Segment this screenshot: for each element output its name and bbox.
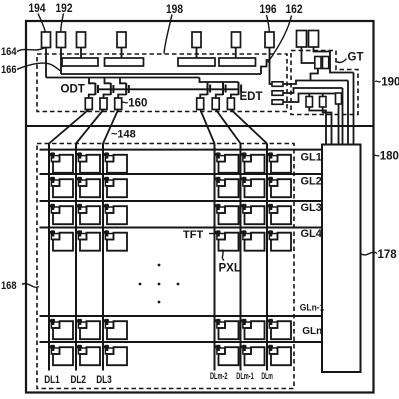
pixel cell GL3/DLm-2 xyxy=(214,204,239,224)
pad P2 xyxy=(57,32,66,48)
svg-text:TFT: TFT xyxy=(183,229,203,241)
leader 166 xyxy=(17,63,60,70)
gate driver region 178 xyxy=(322,145,361,373)
pad gt-lp3 xyxy=(336,93,342,104)
pixel cell GL3/DLm-1 xyxy=(240,204,265,224)
pad edt1 xyxy=(197,98,204,110)
transistor Q6 gate bar xyxy=(240,85,242,93)
wire P1 drop xyxy=(45,48,47,78)
wire Q2 output xyxy=(104,95,111,99)
pixel cell GL1/DLm-2 xyxy=(214,152,239,172)
leader 192 xyxy=(61,14,64,32)
svg-text:GT: GT xyxy=(348,52,364,64)
pixel cell GL4/DL3 xyxy=(103,230,128,250)
svg-text:166: 166 xyxy=(1,64,17,76)
pixel cell GL2/DLm-2 xyxy=(214,177,239,197)
pad edt2 xyxy=(212,98,219,110)
pad gt-ip1 xyxy=(315,57,321,69)
pad P4 xyxy=(117,32,126,48)
wire railB-EDT staircase xyxy=(200,78,239,83)
pixel array dashed box 168 xyxy=(37,144,294,389)
pixel cell GLn/DLm-2 xyxy=(214,345,239,365)
data line xyxy=(75,144,77,371)
wire Q4 output xyxy=(200,95,207,99)
svg-text:~160: ~160 xyxy=(122,98,148,110)
transistor Q4 channel bar xyxy=(207,82,209,95)
leader 164 xyxy=(17,48,45,52)
pixel cell GL1/DL2 xyxy=(76,152,101,172)
wire edt3-DLm xyxy=(231,110,267,144)
shorting bar B3 xyxy=(178,58,215,66)
svg-text:162: 162 xyxy=(286,4,303,16)
shorting bar B4 xyxy=(219,58,256,66)
pixel cell GL1/DLm-1 xyxy=(240,152,265,172)
svg-text:~180: ~180 xyxy=(373,151,399,163)
pixel cell GLn-1/DLm-2 xyxy=(214,319,239,339)
transistor Q5 channel bar xyxy=(222,82,224,95)
leader 162 xyxy=(268,16,292,63)
wire hp3-branch xyxy=(283,94,336,103)
ellipsis dots xyxy=(139,264,180,304)
wire ip2 stub xyxy=(329,62,330,64)
pixel cell GL4/DL2 xyxy=(76,230,101,250)
pixel cell GLn/DL3 xyxy=(103,345,128,365)
gate line xyxy=(40,227,323,229)
svg-text:DL3: DL3 xyxy=(96,374,112,386)
wire Q1 output xyxy=(89,95,96,99)
wire P4-B2 xyxy=(121,48,123,59)
leader 178 xyxy=(361,252,377,255)
svg-text:178: 178 xyxy=(378,249,398,261)
pixel cell GLn/DL1 xyxy=(49,345,74,365)
wire odt2-DL2 xyxy=(76,110,104,144)
wire ip1 stub xyxy=(311,69,318,81)
pixel cell GL2/DLm-1 xyxy=(240,177,265,197)
svg-text:194: 194 xyxy=(29,3,47,15)
pixel cell GL4/DLm-1 xyxy=(240,230,265,250)
svg-text:GLn-1: GLn-1 xyxy=(300,303,325,314)
pixel cell GL2/DLm xyxy=(267,177,292,197)
pixel cell GLn/DLm-1 xyxy=(240,345,265,365)
transistor Q1 gate bar xyxy=(97,85,99,93)
pad gt-lp2 xyxy=(320,97,327,108)
wire w2 xyxy=(323,107,332,145)
wire w4 xyxy=(342,88,344,145)
wire gate chain xyxy=(98,88,239,90)
svg-text:PXL: PXL xyxy=(219,263,241,275)
wire edt1-DLm-2 xyxy=(200,110,214,144)
wire Q5 output xyxy=(216,95,223,99)
pad odt3 xyxy=(115,98,122,110)
svg-text:DLm: DLm xyxy=(261,371,273,382)
svg-text:196: 196 xyxy=(260,4,277,16)
shorting bar B2 xyxy=(105,58,144,66)
pad P6 xyxy=(232,32,241,48)
pixel cell GL1/DL3 xyxy=(103,152,128,172)
wire w1 xyxy=(309,107,326,145)
pixel cell GL2/DL1 xyxy=(49,177,74,197)
pixel cell GL3/DL2 xyxy=(76,204,101,224)
gate line xyxy=(40,149,323,151)
pixel cell GLn-1/DL2 xyxy=(76,319,101,339)
pad odt1 160 xyxy=(85,98,92,110)
svg-text:DL1: DL1 xyxy=(44,374,60,386)
transistor Q4 gate bar xyxy=(209,85,211,93)
wire w5 xyxy=(347,81,349,145)
data line xyxy=(240,144,242,371)
driver section divider line xyxy=(26,125,374,127)
wire rail B xyxy=(46,77,200,79)
leader 196 xyxy=(267,15,270,32)
pad edt3 xyxy=(227,98,234,110)
wire feed Q1 xyxy=(89,78,95,84)
transistor Q3 channel bar xyxy=(125,83,127,95)
transistor Q5 gate bar xyxy=(225,85,227,93)
leader 194 xyxy=(38,14,45,32)
wire P6-B4 xyxy=(235,48,237,59)
pad hp2 xyxy=(272,91,283,96)
pixel cell GLn/DL2 xyxy=(76,345,101,365)
wire Q6 output xyxy=(231,95,239,99)
pad P9 xyxy=(309,31,319,48)
leader GT xyxy=(336,59,346,63)
pixel cell GLn-1/DL3 xyxy=(103,319,128,339)
pixel cell GL4/DL1 xyxy=(49,230,74,250)
leader PXL xyxy=(222,250,224,261)
svg-text:~148: ~148 xyxy=(111,129,136,141)
pad gt-lp1 xyxy=(306,97,313,108)
svg-text:GLn: GLn xyxy=(302,325,322,337)
pad hp1 xyxy=(272,82,283,87)
wire node162 drop xyxy=(270,60,273,84)
svg-text:DLm-2: DLm-2 xyxy=(210,371,228,382)
transistor Q2 gate bar xyxy=(112,85,114,93)
svg-text:164: 164 xyxy=(1,46,17,58)
wire P2 drop xyxy=(60,48,62,75)
leader TFT xyxy=(209,233,217,235)
pad P3 xyxy=(77,32,86,48)
gate line xyxy=(40,341,323,343)
pad odt2 xyxy=(100,98,107,110)
pad P8 xyxy=(297,31,307,48)
pad gt-ip2 xyxy=(323,57,329,69)
pixel cell GLn/DLm xyxy=(267,345,292,365)
svg-text:168: 168 xyxy=(1,280,17,292)
gate line xyxy=(40,315,323,317)
wire lp2 top stub xyxy=(322,94,324,97)
data line xyxy=(214,144,216,371)
pixel cell GL1/DLm xyxy=(267,152,292,172)
leader 198 xyxy=(164,15,172,54)
wire P9 stem xyxy=(314,47,354,73)
pixel cell GL4/DLm-2 xyxy=(214,230,239,250)
leader 168 xyxy=(22,283,39,287)
wire P8 stem xyxy=(302,47,315,63)
wire hp1-rail xyxy=(283,81,348,85)
svg-text:EDT: EDT xyxy=(240,91,263,103)
wire railA-P7 step xyxy=(261,48,270,75)
pad hp3 xyxy=(272,100,283,105)
svg-text:GL2: GL2 xyxy=(301,176,322,188)
wire hp2-branch xyxy=(283,88,343,93)
gate line xyxy=(40,173,323,175)
pixel cell GL1/DL1 xyxy=(49,152,74,172)
shorting bar B1 xyxy=(62,58,98,66)
pixel cell GLn-1/DLm xyxy=(267,319,292,339)
transistor Q1 channel bar xyxy=(94,83,96,95)
pixel cell GLn-1/DL1 xyxy=(49,319,74,339)
data line xyxy=(102,144,104,371)
pixel cell GL2/DL3 xyxy=(103,177,128,197)
transistor Q3 gate bar xyxy=(128,85,130,93)
svg-text:192: 192 xyxy=(56,3,73,15)
data line xyxy=(48,144,50,371)
wire odt1-DL1 xyxy=(49,110,89,144)
svg-text:~190: ~190 xyxy=(375,77,399,89)
wire w6 xyxy=(353,73,355,145)
wire P5-B3 xyxy=(196,48,198,59)
svg-text:ODT: ODT xyxy=(61,84,85,96)
svg-text:DLm-1: DLm-1 xyxy=(236,371,254,382)
pad P1 xyxy=(42,32,51,48)
gate line xyxy=(40,200,323,202)
svg-text:GL4: GL4 xyxy=(301,228,323,240)
wire Q3 output xyxy=(118,95,126,99)
transistor Q6 channel bar xyxy=(238,82,240,95)
svg-text:GL1: GL1 xyxy=(301,152,322,164)
transistor Q2 channel bar xyxy=(110,83,112,95)
pixel cell GL3/DLm xyxy=(267,204,292,224)
wire rail A xyxy=(61,73,261,75)
svg-text:198: 198 xyxy=(166,4,184,16)
wire edt2-DLm-1 xyxy=(216,110,241,144)
pixel cell GL3/DL1 xyxy=(49,204,74,224)
wire w3 xyxy=(338,104,340,145)
data line xyxy=(266,144,268,371)
svg-text:GL3: GL3 xyxy=(301,202,322,214)
pad P7 xyxy=(265,32,274,48)
pixel cell GL3/DL3 xyxy=(103,204,128,224)
svg-text:DL2: DL2 xyxy=(71,374,87,386)
pixel cell GL4/DLm xyxy=(267,230,292,250)
wire odt3-DL3 xyxy=(103,110,118,144)
pixel cell GLn-1/DLm-1 xyxy=(240,319,265,339)
wire feed Q2 xyxy=(105,78,111,84)
data test dashed box 164 xyxy=(37,54,287,112)
wire P3-B1 xyxy=(80,48,82,59)
wire lp1 top stub xyxy=(308,94,310,97)
wire feed Q3 xyxy=(120,78,126,84)
pixel cell GL2/DL2 xyxy=(76,177,101,197)
pad P5 xyxy=(192,32,201,48)
gate test dashed box GT xyxy=(291,51,358,115)
